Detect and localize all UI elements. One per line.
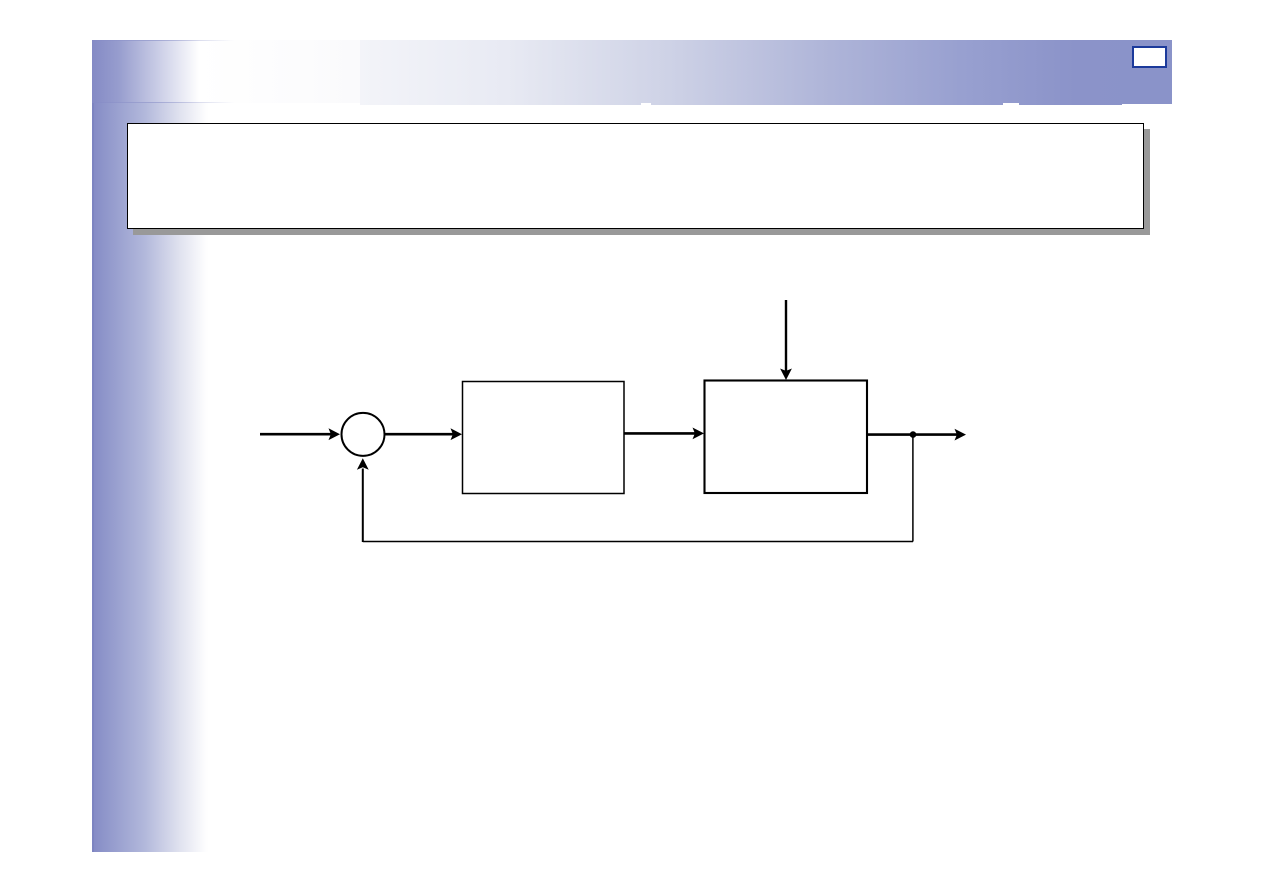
wire: feedback rise into summing junction	[357, 458, 369, 542]
summing junction circle	[342, 413, 385, 456]
wire: input arrow into summing junction	[260, 428, 340, 440]
block 2 (plant box)	[705, 381, 868, 494]
wire: feedback vertical drop from node	[912, 435, 914, 542]
header band left segment (blue fading to white)	[92, 40, 360, 103]
notch in band bottom edge 2	[1003, 103, 1019, 106]
block 1 (controller box)	[463, 382, 625, 494]
wire: feedback horizontal run	[363, 541, 913, 543]
header band left segment thin bottom edge line	[92, 102, 234, 103]
slide number icon (white rect with navy border) top right	[1132, 46, 1167, 68]
notch in band bottom edge 1	[641, 103, 651, 106]
wire: disturbance arrow into top of block 2	[780, 300, 792, 380]
node: output branch junction dot	[910, 431, 917, 438]
title box shadow	[133, 129, 1150, 235]
band right end slightly shorter bottom	[1122, 104, 1172, 106]
wire: output arrow from block 2	[867, 429, 966, 441]
left sidebar gradient strip	[92, 40, 209, 852]
header band right segment (light fading to blue)	[360, 40, 1172, 105]
wire: summing junction to block 1	[385, 428, 462, 440]
wire: block 1 to block 2	[625, 428, 705, 440]
header band left segment thin top edge line	[92, 40, 234, 41]
slide left edge darker line	[92, 40, 94, 852]
title placeholder box (empty)	[127, 123, 1144, 229]
